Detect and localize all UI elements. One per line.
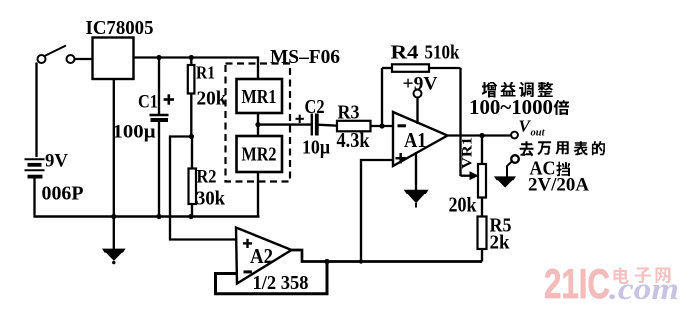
wire MR2 to ground rail xyxy=(257,172,259,217)
svg-text:9V: 9V xyxy=(45,151,68,172)
svg-text:.com: .com xyxy=(609,271,679,306)
resistor R3 4.3k xyxy=(337,121,371,132)
node bias tap xyxy=(359,259,363,263)
svg-text:100μ: 100μ xyxy=(113,123,157,143)
svg-text:100~1000: 100~1000 xyxy=(469,95,553,119)
svg-text:C1: C1 xyxy=(138,93,158,113)
wire +5V rail xyxy=(134,56,259,58)
svg-text:30k: 30k xyxy=(196,188,226,210)
sensor MR1 xyxy=(237,79,283,113)
label gain adjust xyxy=(482,82,553,98)
resistor R4 510k xyxy=(381,68,383,126)
svg-text:MS–F06: MS–F06 xyxy=(270,46,340,68)
wire A2 feedback xyxy=(216,262,328,294)
label to multimeter xyxy=(520,141,605,156)
sensor MR2 xyxy=(237,136,283,172)
node A2 output xyxy=(324,259,329,264)
svg-text:R3: R3 xyxy=(338,102,360,124)
capacitor C2 10μ xyxy=(311,114,313,136)
svg-text:A1: A1 xyxy=(404,128,427,152)
wire A1 noninverting input xyxy=(361,160,393,262)
wire A1 ground pin xyxy=(415,152,417,191)
ground xyxy=(404,190,429,194)
terminal AC output xyxy=(511,155,519,163)
resistor R2 30k xyxy=(191,137,193,169)
wire xyxy=(35,63,37,158)
battery B1 9V xyxy=(25,158,45,160)
svg-text:2V/20A: 2V/20A xyxy=(528,175,589,196)
svg-text:10μ: 10μ xyxy=(302,138,330,159)
svg-text:A2: A2 xyxy=(250,244,273,268)
svg-text:R2: R2 xyxy=(197,168,217,188)
ground xyxy=(494,176,516,180)
node divider xyxy=(189,134,194,139)
svg-text:20k: 20k xyxy=(449,193,477,217)
svg-text:MR2: MR2 xyxy=(242,144,277,166)
resistor R5 2k xyxy=(478,217,487,250)
svg-text:006P: 006P xyxy=(42,183,84,205)
svg-text:out: out xyxy=(531,128,546,139)
wire A2 output xyxy=(292,250,483,262)
svg-text:MR1: MR1 xyxy=(242,86,277,108)
wire divider to A2 noninverting input xyxy=(170,137,237,240)
svg-text:R1: R1 xyxy=(196,63,215,83)
op-amp A2 xyxy=(236,228,292,284)
wire sensor output node xyxy=(257,113,259,136)
svg-text:2k: 2k xyxy=(490,232,511,254)
op-amp A1 xyxy=(393,112,448,166)
resistor R1 20k xyxy=(190,57,192,66)
capacitor C1 100μ xyxy=(158,57,160,115)
node output xyxy=(479,133,484,138)
wire ground rail xyxy=(33,215,259,218)
wire IC ground pin xyxy=(113,79,115,249)
svg-text:510k: 510k xyxy=(425,42,461,64)
svg-text:IC78005: IC78005 xyxy=(86,17,154,39)
module MS-F06 dashed box xyxy=(226,64,291,182)
switch S1 xyxy=(38,55,46,63)
node feedback junction xyxy=(379,123,384,128)
potentiometer VR1 20k xyxy=(481,136,483,165)
regulator IC1 78005 xyxy=(93,38,134,80)
svg-text:4.3k: 4.3k xyxy=(337,128,370,152)
svg-text:21IC: 21IC xyxy=(544,260,610,307)
ground xyxy=(102,249,126,253)
svg-text:VR1: VR1 xyxy=(460,137,476,169)
terminal Vout xyxy=(511,132,518,139)
svg-text:20k: 20k xyxy=(197,89,227,110)
svg-text:R4: R4 xyxy=(391,42,419,64)
svg-text:1/2 358: 1/2 358 xyxy=(253,272,309,294)
svg-text:C2: C2 xyxy=(305,96,325,118)
wire A1 output xyxy=(448,134,512,136)
